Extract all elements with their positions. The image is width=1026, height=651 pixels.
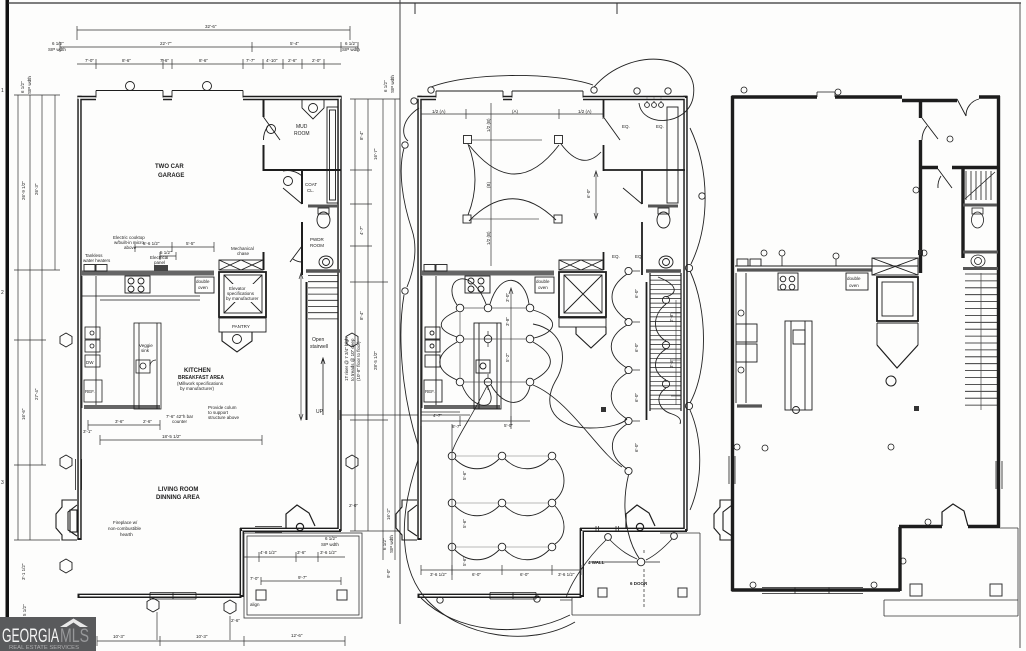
svg-text:1/2 (A): 1/2 (A) xyxy=(578,109,592,114)
svg-text:2'-6": 2'-6" xyxy=(143,419,152,424)
svg-text:18'-5 1/2": 18'-5 1/2" xyxy=(162,434,181,439)
svg-text:hearth: hearth xyxy=(120,532,133,537)
svg-text:CL.: CL. xyxy=(307,188,314,193)
svg-text:EQ.: EQ. xyxy=(612,254,620,259)
svg-text:by manufacturer): by manufacturer) xyxy=(180,386,215,391)
svg-text:6 1/2": 6 1/2" xyxy=(325,536,337,541)
svg-text:5'-5": 5'-5" xyxy=(186,241,195,246)
svg-text:16'-6": 16'-6" xyxy=(21,408,26,420)
svg-text:6'-0": 6'-0" xyxy=(634,289,639,298)
svg-text:oven: oven xyxy=(538,285,548,290)
svg-text:5'-0": 5'-0" xyxy=(504,423,513,428)
svg-text:3'-6 1/2": 3'-6 1/2" xyxy=(430,572,447,577)
svg-text:27'-4": 27'-4" xyxy=(34,388,39,400)
svg-text:7'-7": 7'-7" xyxy=(246,58,255,63)
svg-text:9'-0": 9'-0" xyxy=(386,569,391,578)
svg-text:28'-5 1/2": 28'-5 1/2" xyxy=(373,351,378,370)
svg-text:7'-6": 7'-6" xyxy=(160,58,169,63)
svg-text:double: double xyxy=(847,276,861,281)
svg-text:COAT: COAT xyxy=(305,182,317,187)
svg-text:KITCHEN: KITCHEN xyxy=(184,368,211,374)
svg-text:2'-6": 2'-6" xyxy=(231,618,240,623)
svg-text:26'-3": 26'-3" xyxy=(34,183,39,195)
svg-text:1/2 (B): 1/2 (B) xyxy=(486,231,491,245)
svg-text:EQ.: EQ. xyxy=(656,124,664,129)
svg-text:16'-2": 16'-2" xyxy=(386,508,391,520)
svg-text:32'-6": 32'-6" xyxy=(205,24,217,29)
svg-text:6'-0": 6'-0" xyxy=(586,189,591,198)
svg-text:8'-4": 8'-4" xyxy=(359,311,364,320)
svg-text:5'-2": 5'-2" xyxy=(505,353,510,362)
svg-text:3'-6": 3'-6" xyxy=(297,550,306,555)
svg-text:EQ.: EQ. xyxy=(635,254,643,259)
svg-text:(A): (A) xyxy=(512,109,519,114)
svg-text:3'-1 1/2": 3'-1 1/2" xyxy=(21,563,26,580)
svg-text:4'-10": 4'-10" xyxy=(266,58,278,63)
svg-text:6 DOOR: 6 DOOR xyxy=(630,581,648,586)
svg-text:by manufacturer: by manufacturer xyxy=(226,296,259,301)
svg-text:5'-4": 5'-4" xyxy=(290,41,299,46)
svg-text:7'-0": 7'-0" xyxy=(250,576,259,581)
svg-text:SIP wdth: SIP wdth xyxy=(321,542,339,547)
svg-text:3'-1": 3'-1" xyxy=(83,429,92,434)
svg-text:oven: oven xyxy=(198,285,208,290)
svg-text:panel: panel xyxy=(154,260,165,265)
svg-text:6'-0": 6'-0" xyxy=(634,343,639,352)
svg-text:water heaters: water heaters xyxy=(83,258,111,263)
svg-text:1/2 (B): 1/2 (B) xyxy=(486,118,491,132)
svg-text:REF.: REF. xyxy=(85,389,95,394)
svg-text:2'-6": 2'-6" xyxy=(288,58,297,63)
svg-text:PANTRY: PANTRY xyxy=(232,324,250,329)
svg-text:6 1/2": 6 1/2" xyxy=(382,538,387,550)
svg-text:6 1/2": 6 1/2" xyxy=(20,81,25,93)
svg-text:1/2 (A): 1/2 (A) xyxy=(432,109,446,114)
svg-text:SIP wdth: SIP wdth xyxy=(390,75,395,93)
svg-text:structure above: structure above xyxy=(208,415,240,420)
svg-text:3: 3 xyxy=(1,480,4,486)
svg-text:EQ.: EQ. xyxy=(622,124,630,129)
svg-text:6'-0": 6'-0" xyxy=(472,572,481,577)
svg-text:DW: DW xyxy=(86,360,94,365)
svg-text:1: 1 xyxy=(1,88,4,94)
svg-text:8'-6": 8'-6" xyxy=(199,58,208,63)
svg-text:22'-7": 22'-7" xyxy=(160,41,172,46)
svg-text:4'-8 1/2": 4'-8 1/2" xyxy=(260,550,277,555)
svg-text:GARAGE: GARAGE xyxy=(158,173,184,179)
svg-text:8'-4": 8'-4" xyxy=(359,131,364,140)
svg-text:2'-8": 2'-8" xyxy=(669,313,674,322)
svg-text:align: align xyxy=(250,602,260,607)
svg-text:6 1/2": 6 1/2" xyxy=(345,41,357,46)
svg-text:DINNING AREA: DINNING AREA xyxy=(156,495,200,501)
svg-text:stairwell: stairwell xyxy=(310,344,328,350)
svg-text:7'-0": 7'-0" xyxy=(85,58,94,63)
svg-text:double: double xyxy=(536,279,550,284)
svg-text:Open: Open xyxy=(312,337,324,343)
svg-text:6 1/2": 6 1/2" xyxy=(52,41,64,46)
svg-text:GEORGIA: GEORGIA xyxy=(2,626,59,647)
svg-text:8'-6": 8'-6" xyxy=(122,58,131,63)
svg-text:3'-0": 3'-0" xyxy=(505,293,510,302)
svg-text:5'-6": 5'-6" xyxy=(462,557,467,566)
svg-text:(B): (B) xyxy=(486,182,491,189)
svg-text:3'-8": 3'-8" xyxy=(505,317,510,326)
svg-text:6'-0": 6'-0" xyxy=(520,572,529,577)
svg-text:double: double xyxy=(196,279,210,284)
svg-text:2: 2 xyxy=(1,290,4,296)
svg-text:Fireplace w/: Fireplace w/ xyxy=(113,520,138,525)
svg-text:2'-0": 2'-0" xyxy=(349,503,358,508)
svg-text:2'-0": 2'-0" xyxy=(312,58,321,63)
svg-text:6'-0": 6'-0" xyxy=(634,443,639,452)
svg-text:SIP wdth: SIP wdth xyxy=(27,76,32,94)
svg-text:12'-6": 12'-6" xyxy=(291,633,303,638)
svg-text:10'-3": 10'-3" xyxy=(113,634,125,639)
svg-text:26'-9 1/2": 26'-9 1/2" xyxy=(21,181,26,200)
svg-text:10'-3": 10'-3" xyxy=(196,634,208,639)
svg-text:ROOM: ROOM xyxy=(294,131,310,137)
svg-text:5'-6": 5'-6" xyxy=(462,519,467,528)
svg-text:3'-6 1/2": 3'-6 1/2" xyxy=(320,550,337,555)
svg-text:1T riser @ 7 3/4" high: 1T riser @ 7 3/4" high xyxy=(344,337,349,381)
svg-text:(10'-8" floor to floor): (10'-8" floor to floor) xyxy=(356,341,361,381)
svg-text:5'-6": 5'-6" xyxy=(462,471,467,480)
svg-text:3'-6": 3'-6" xyxy=(669,359,674,368)
svg-text:16'-7": 16'-7" xyxy=(373,148,378,160)
svg-text:MUD: MUD xyxy=(296,124,308,130)
svg-text:SIP wdth: SIP wdth xyxy=(389,535,394,553)
svg-text:chase: chase xyxy=(237,251,250,256)
svg-text:ROOM: ROOM xyxy=(310,243,324,248)
svg-text:sink: sink xyxy=(141,348,150,353)
svg-text:non-combustible: non-combustible xyxy=(108,526,142,531)
svg-text:PWDR: PWDR xyxy=(310,237,324,242)
svg-text:TWO CAR: TWO CAR xyxy=(155,164,184,170)
svg-text:5 1/2": 5 1/2" xyxy=(22,604,27,616)
svg-text:6'-0": 6'-0" xyxy=(634,393,639,402)
svg-text:3'-6 1/2": 3'-6 1/2" xyxy=(558,572,575,577)
svg-text:to treads @ 10" deep: to treads @ 10" deep xyxy=(350,338,355,381)
svg-text:UP: UP xyxy=(316,409,324,415)
svg-text:SIP wdth: SIP wdth xyxy=(48,47,66,52)
svg-text:oven: oven xyxy=(849,283,859,288)
svg-text:5 1/2": 5 1/2" xyxy=(160,250,172,255)
svg-text:LIVING ROOM: LIVING ROOM xyxy=(158,487,198,493)
svg-text:MLS: MLS xyxy=(60,626,89,647)
svg-text:8'-7": 8'-7" xyxy=(452,424,461,429)
svg-text:REF.: REF. xyxy=(425,389,435,394)
svg-text:4 WALL: 4 WALL xyxy=(588,560,605,565)
svg-text:4'-7": 4'-7" xyxy=(359,226,364,235)
svg-text:SIP wdth: SIP wdth xyxy=(342,47,360,52)
svg-text:9'-7": 9'-7" xyxy=(298,575,307,580)
svg-text:4'-7": 4'-7" xyxy=(433,413,442,418)
svg-text:6 1/2": 6 1/2" xyxy=(383,80,388,92)
svg-text:counter: counter xyxy=(172,419,188,424)
svg-text:REAL ESTATE SERVICES: REAL ESTATE SERVICES xyxy=(9,645,79,651)
svg-text:5'-6 1/2": 5'-6 1/2" xyxy=(143,241,160,246)
svg-text:3'-6": 3'-6" xyxy=(115,419,124,424)
